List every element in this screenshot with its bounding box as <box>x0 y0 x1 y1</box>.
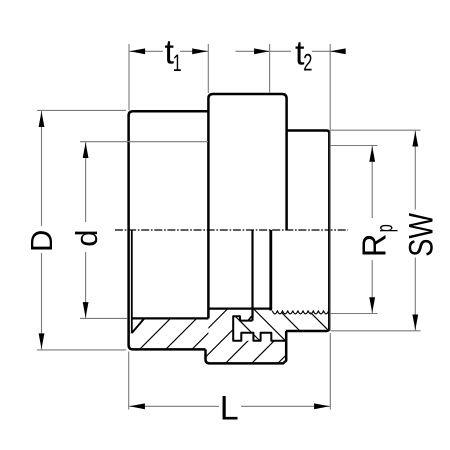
t2 dimension line <box>236 50 345 52</box>
svg-text:L: L <box>220 390 239 428</box>
Rp extension lines <box>331 145 378 147</box>
L dimension line <box>129 405 331 407</box>
internal thread profile <box>272 311 328 314</box>
svg-text:D: D <box>24 230 59 252</box>
t1 extension lines <box>128 44 130 110</box>
svg-text:p: p <box>372 224 399 232</box>
SW dimension line <box>414 130 416 331</box>
t1 arrowheads <box>130 48 146 54</box>
through bore line <box>208 308 271 310</box>
t2 arrowheads <box>254 48 270 54</box>
svg-text:d: d <box>69 230 104 247</box>
socket bore line <box>132 317 209 319</box>
centerline <box>115 229 348 231</box>
D arrowheads <box>39 112 45 128</box>
Rp arrowheads <box>369 146 375 162</box>
d extension lines <box>80 141 208 143</box>
SW arrowheads <box>412 131 418 147</box>
Rp dimension line <box>371 146 373 314</box>
middle body block outline <box>208 94 286 318</box>
middle body bottom outline <box>206 331 287 363</box>
D dimension line <box>41 110 43 350</box>
insert castellated profile <box>233 316 286 341</box>
section hatching: body around insert <box>83 290 378 375</box>
svg-text:R: R <box>356 233 393 257</box>
insert flange chamfer <box>248 316 252 320</box>
socket mouth inner edge <box>131 230 133 333</box>
L arrowheads <box>129 403 145 409</box>
section hatching: left socket wall <box>88 290 383 375</box>
svg-text:2: 2 <box>303 49 312 76</box>
hexagon block outline <box>286 131 329 332</box>
socket mouth chamfer <box>132 319 144 333</box>
d dimension line <box>85 142 87 319</box>
thread start face <box>269 230 272 311</box>
section hatching: threaded insert <box>230 232 335 416</box>
svg-text:1: 1 <box>173 50 182 77</box>
t2 extension lines <box>269 44 271 93</box>
D extension lines <box>37 109 126 111</box>
SW extension lines <box>331 129 421 131</box>
t1 dimension line <box>129 50 208 52</box>
left socket block outline <box>129 111 209 349</box>
svg-text:SW: SW <box>402 213 440 257</box>
L extension lines <box>128 352 130 410</box>
insert end face <box>251 230 253 321</box>
d arrowheads <box>83 143 89 159</box>
